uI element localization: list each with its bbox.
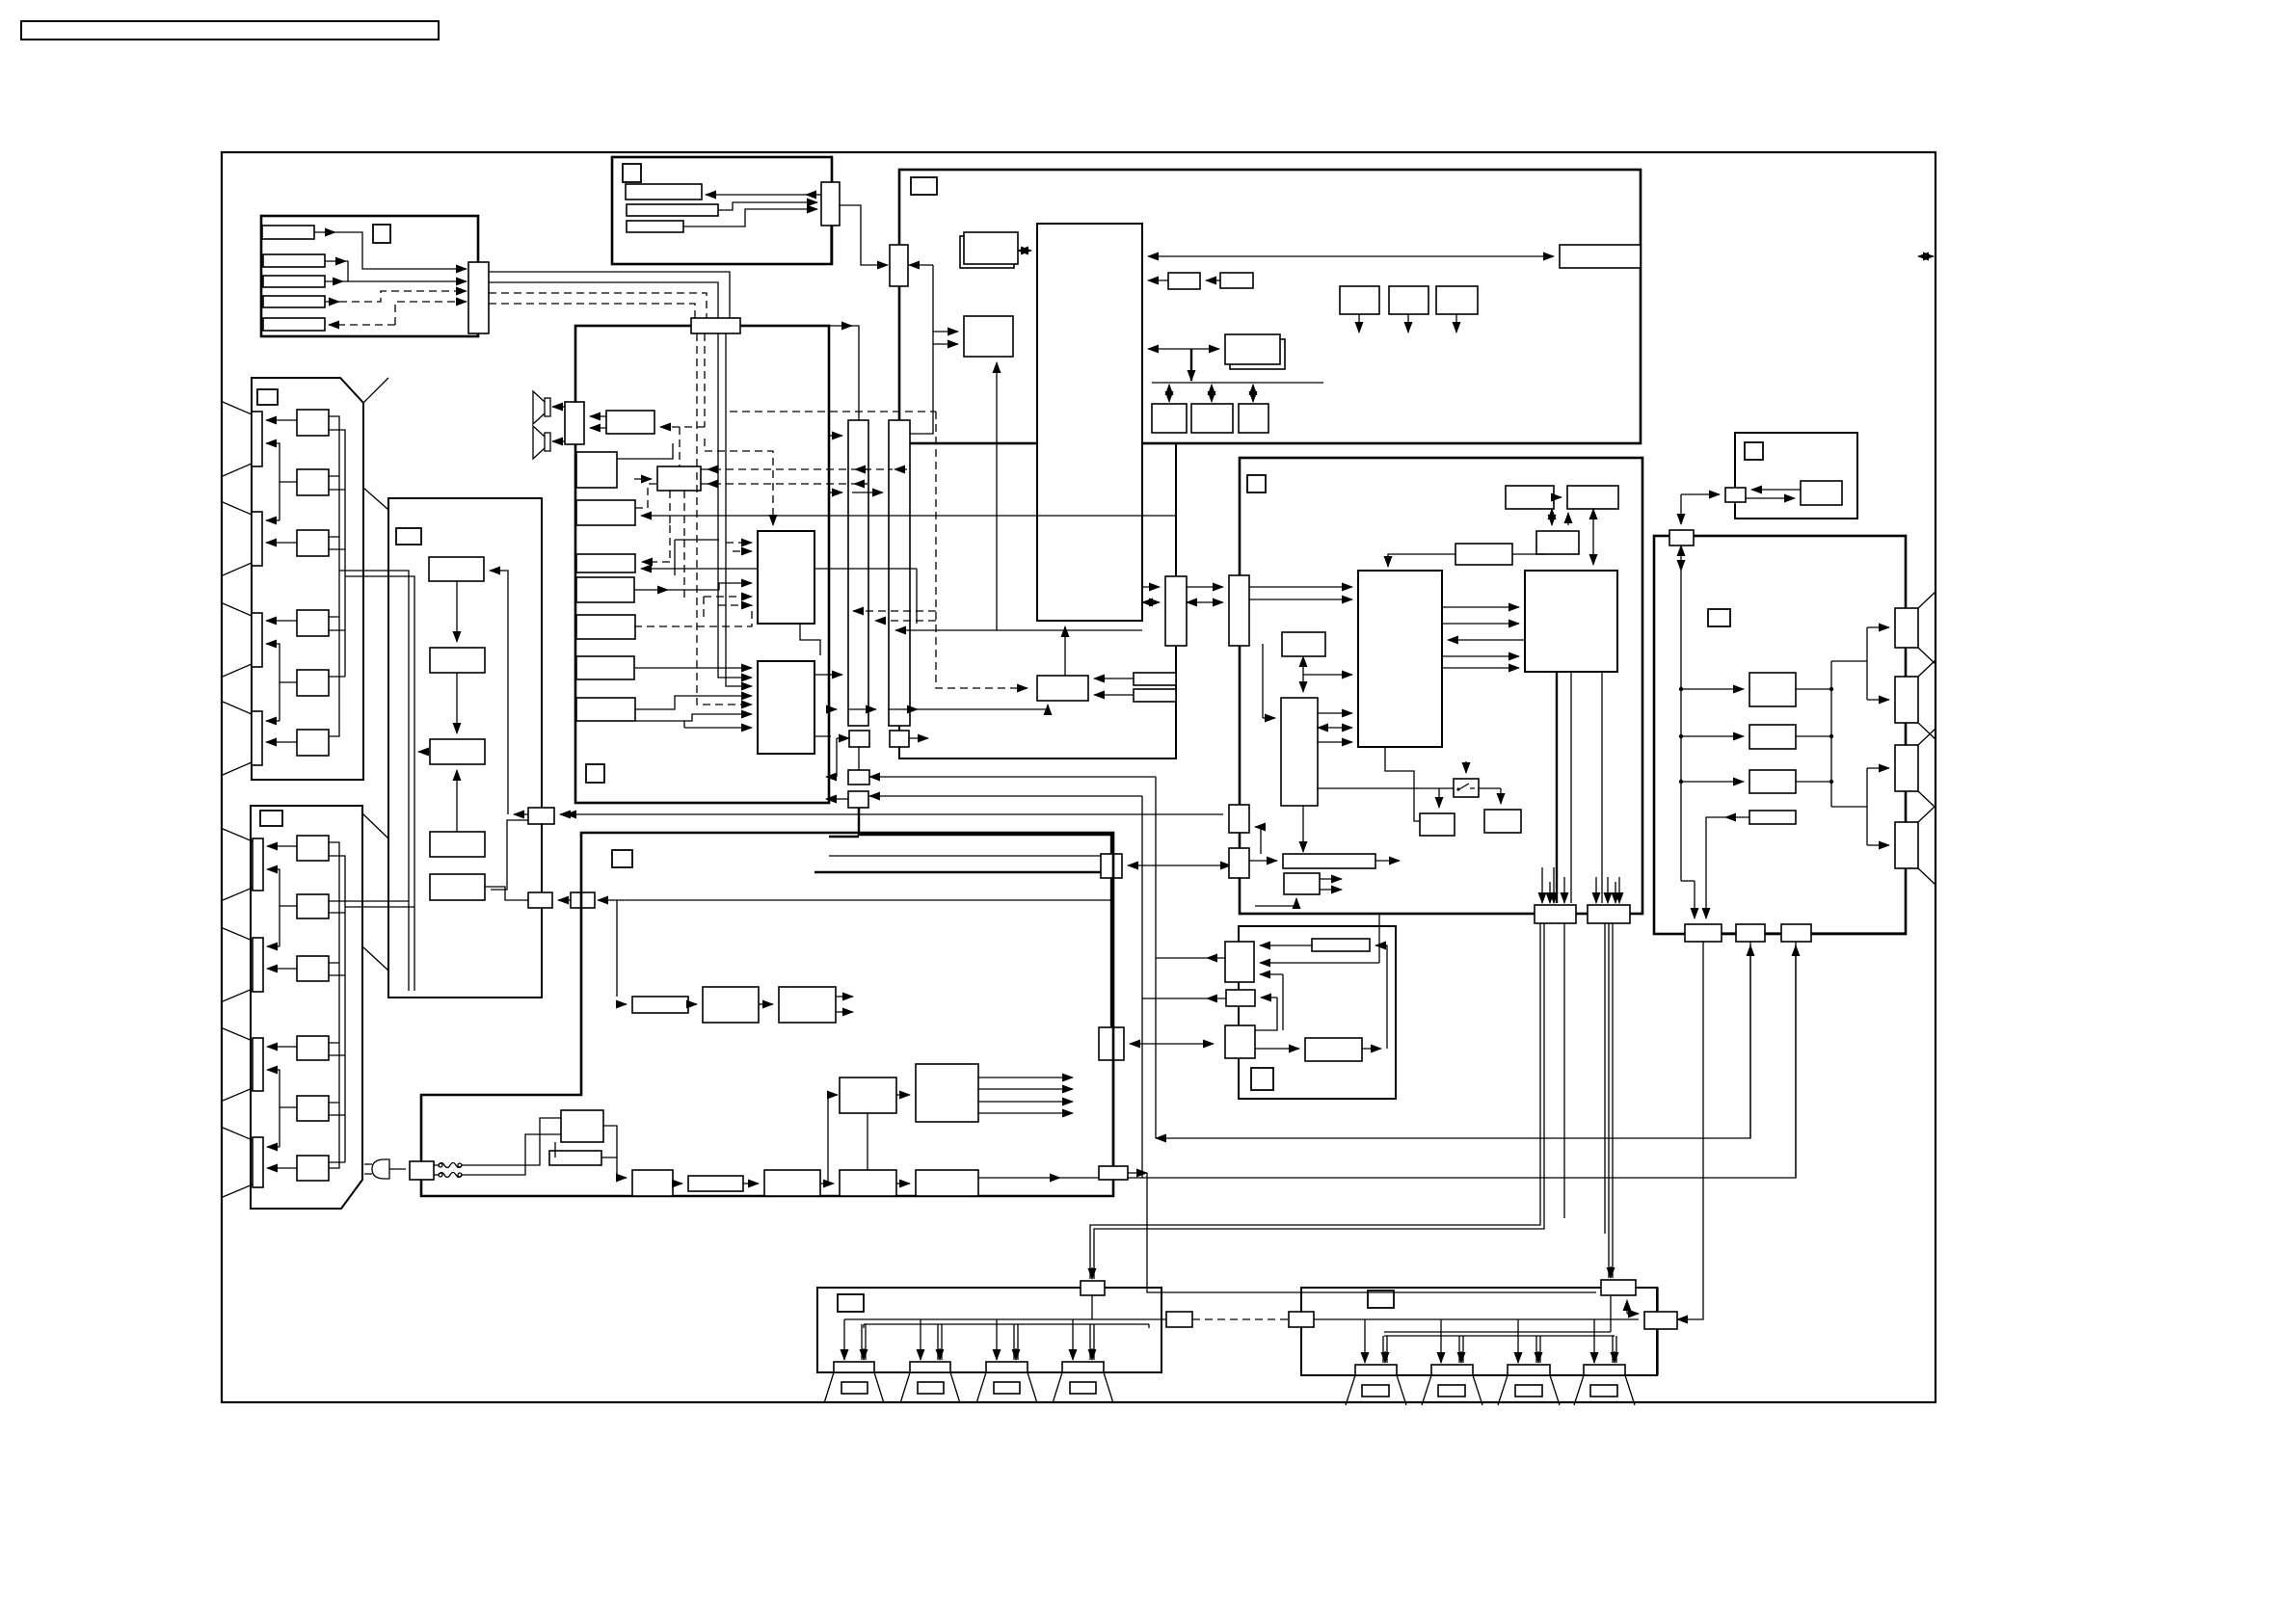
- panel1 jack 2: [252, 512, 262, 566]
- wire conn3 line to right edge: [1811, 932, 1906, 934]
- connector below bar2: [890, 731, 909, 747]
- wire solid into bars y512: [829, 492, 842, 493]
- shadow box tuner pack: [960, 236, 1014, 268]
- wire Q1 to video connector: [1128, 865, 1231, 866]
- long wire: video conn1 down to spk left: [1090, 923, 1544, 1234]
- vertical bus audio out: [1830, 661, 1832, 807]
- block: audio output board (far right): [1654, 536, 1906, 934]
- long wire: audio-out conn1 down: [1677, 942, 1703, 1319]
- connector spk left right edge: [1166, 1312, 1192, 1327]
- wire into spk-left top connector: [1090, 1234, 1094, 1279]
- speaker unit R2: [1422, 1365, 1482, 1405]
- box side av: [1305, 1038, 1362, 1061]
- wire panel1 bus out to tuner: [339, 571, 414, 991]
- connector tuner right: [528, 808, 554, 824]
- wire audio to inline connector (thick): [859, 808, 1111, 854]
- wire r2 to regulator: [1094, 694, 1134, 696]
- connector main left: [890, 245, 908, 286]
- block: IR receiver / key board: [612, 157, 832, 264]
- IR bar 3: [627, 221, 683, 232]
- wire audio thick line y905: [814, 871, 1101, 873]
- wire main left edge feed: [898, 170, 900, 245]
- label square remote: [373, 225, 390, 243]
- wire power bottom drop: [1112, 1060, 1114, 1166]
- AC inlet box: [410, 1161, 434, 1180]
- wire bus solid 1: [489, 272, 730, 318]
- wire box1 to box2: [759, 1003, 773, 1005]
- label square tuner: [396, 528, 421, 545]
- standby box 1: [703, 987, 759, 1023]
- wire conn2 loop: [1261, 997, 1277, 998]
- connector below bar1: [849, 731, 869, 747]
- wire crt connector feed: [1681, 493, 1720, 495]
- bus wires: remote connector to audio connector: [489, 272, 730, 318]
- audio mux box: [657, 466, 701, 491]
- wire power conn out: [1128, 1172, 1147, 1174]
- connector tuner C: [571, 892, 595, 908]
- speaker unit L3: [976, 1362, 1037, 1403]
- tuner box 3: [430, 739, 485, 764]
- wire tuner feedback: [490, 571, 508, 814]
- wire conn to aux top: [1635, 1288, 1658, 1311]
- wire mid1 to mid2: [896, 1094, 910, 1096]
- wire into small box bottom: [1295, 898, 1297, 906]
- smps box 3: [840, 1170, 896, 1196]
- smps box 2: [764, 1170, 820, 1196]
- label square main: [911, 177, 937, 195]
- wires spk right drops: [1364, 1319, 1366, 1363]
- panel1 box A: [297, 410, 329, 436]
- wire dashed between speaker boxes: [1192, 1318, 1289, 1320]
- wire switch line left: [1318, 787, 1454, 789]
- wires down from audio connector: [696, 333, 698, 466]
- wire subboard bar to video bar lower: [1187, 601, 1223, 603]
- wires into bigA left: [726, 542, 752, 544]
- connector IR out: [821, 182, 840, 226]
- wire long bar feed: [1302, 806, 1304, 852]
- box at right edge of main: [1560, 245, 1641, 268]
- long bar: [1283, 854, 1375, 868]
- panel1 box F: [297, 730, 329, 756]
- wire degauss out: [601, 1157, 617, 1178]
- speaker terminal chevron 4: [1895, 806, 1936, 885]
- wire crt connector to box: [1751, 489, 1801, 491]
- label square power: [612, 850, 632, 867]
- wire P2 feed from right: [869, 795, 1142, 797]
- wire dashed into box3: [642, 561, 670, 563]
- block: side AV board (below video): [1239, 926, 1396, 1099]
- relay box: [561, 1110, 603, 1142]
- video big box 2: [1525, 571, 1617, 672]
- box aux right of spk2: [1644, 1312, 1677, 1329]
- connector crt left: [1725, 488, 1746, 502]
- audio big box A: [758, 531, 814, 624]
- panel1 flag lines 2: [223, 502, 252, 575]
- wire video bottom link down right: [1563, 923, 1565, 1218]
- wire upper mid arrows: [1551, 509, 1553, 525]
- wire video bar to big1 b: [1249, 599, 1352, 600]
- connector audio top: [691, 318, 740, 333]
- audio big box B: [758, 661, 814, 754]
- wire smps up feed: [867, 1113, 868, 1170]
- box small below long bar: [1284, 873, 1320, 894]
- wire audio thin line y888: [829, 855, 1101, 857]
- wire bar to conn1: [1260, 945, 1312, 946]
- box video left of big2: [1455, 544, 1512, 565]
- small wide box r2: [1134, 689, 1176, 702]
- block: speaker box left: [817, 1288, 1161, 1372]
- connector side av 1: [1225, 942, 1254, 982]
- standby box 2: [779, 987, 836, 1023]
- panel1 flag lines 1: [223, 402, 252, 476]
- panel1 wires boxes to jacks: [266, 419, 297, 421]
- panel2 wires boxes to jacks: [267, 845, 297, 847]
- wire spk left bus thin: [844, 1318, 1166, 1320]
- wire tall box to big1 lines: [1318, 712, 1352, 714]
- switch box: [1454, 779, 1479, 797]
- speaker unit L4: [1053, 1362, 1113, 1403]
- panel2 box C: [297, 956, 329, 981]
- wire IR connector down: [830, 226, 832, 264]
- connector video left lower: [1229, 848, 1249, 878]
- panel1 right bus double lines: [329, 416, 345, 736]
- degauss flat box: [549, 1151, 601, 1165]
- amp box 1: [1749, 673, 1796, 706]
- wire amp outputs to vertical bus: [1796, 688, 1831, 690]
- switch lever: [1457, 784, 1475, 790]
- wire bar2 top up: [898, 386, 900, 420]
- wires spk left drops: [843, 1319, 845, 1360]
- wire dashed mux left: [634, 478, 652, 480]
- label square panel2: [260, 811, 282, 826]
- dashed feed from top right into bigA: [705, 439, 773, 525]
- smps box 4: [916, 1170, 978, 1196]
- box video upper mid: [1536, 531, 1579, 554]
- wire relay to degauss: [554, 1142, 556, 1157]
- wire box1 to mux solid: [617, 443, 673, 459]
- wire C to B arrow: [558, 899, 571, 901]
- block: remote control unit: [261, 216, 478, 336]
- block: audio processing: [575, 326, 829, 803]
- block: video / deflection board: [1240, 458, 1642, 914]
- wire dashed into bars y634: [853, 610, 936, 612]
- block: digital sub board: [899, 443, 1176, 758]
- connector video bottom 1: [1535, 905, 1576, 923]
- tuner box 2: [430, 648, 485, 673]
- top bar side av: [1312, 939, 1370, 951]
- panel1 box B: [297, 469, 329, 495]
- wire r1 to regulator: [1094, 678, 1134, 679]
- wire Q1 down to Q2: [1110, 878, 1112, 1027]
- left polygon block 2 (terminal panel bottom): [251, 806, 362, 1209]
- connector spk left top: [1081, 1281, 1105, 1295]
- wire aux up arrow: [1626, 1300, 1628, 1314]
- wire main vertical feed: [1680, 571, 1682, 881]
- panel1 box C: [297, 530, 329, 556]
- amp box 4: [1749, 811, 1796, 824]
- audio left box 3: [576, 554, 635, 572]
- wire solid into box3: [641, 568, 917, 570]
- small box pair right of cpu: [1168, 273, 1200, 289]
- block: CRT socket board (small top-right): [1735, 433, 1857, 519]
- label square spk left: [838, 1294, 864, 1312]
- panel2 flag lines 4: [223, 1128, 253, 1197]
- inline connector box Q2: [1099, 1027, 1124, 1060]
- panel1 box E: [297, 670, 329, 696]
- wire tuner b3 left arrow: [418, 751, 430, 753]
- wire tuner b2-b3: [456, 673, 458, 733]
- block: speaker box right: [1301, 1288, 1657, 1375]
- block: power supply: [421, 833, 1113, 1196]
- speaker unit L1: [824, 1362, 884, 1403]
- wire cpu to memory: [1148, 348, 1219, 350]
- wire bar to box1: [688, 1003, 697, 1005]
- wire smps long output right: [978, 1177, 1060, 1179]
- speaker unit R4: [1574, 1365, 1635, 1405]
- fuse squiggles: [434, 1163, 467, 1168]
- wire bus solid 2: [489, 282, 718, 318]
- panel2 jack 1: [253, 838, 263, 891]
- wire Q2 to sub block: [1130, 1043, 1214, 1045]
- small wide box r1: [1134, 673, 1176, 685]
- connector side av 3: [1225, 1025, 1255, 1058]
- wire into spk-right top connector: [1609, 1234, 1613, 1278]
- wire bus dashed 2: [489, 304, 695, 318]
- wire dashed vertical x971: [936, 412, 1028, 688]
- long wire: audio-out conn3 down: [1795, 942, 1797, 1178]
- label square side av: [1251, 1068, 1273, 1090]
- panel1 flag lines 3: [223, 603, 252, 677]
- label square crt: [1745, 442, 1763, 460]
- label square video: [1247, 475, 1266, 492]
- panel2 flag lines 3: [223, 1028, 253, 1101]
- diagonal joins panel1 to tuner: [363, 378, 388, 510]
- connector remote out: [468, 262, 489, 333]
- audio left box 5: [576, 615, 635, 639]
- wire spk right bus double: [1384, 1332, 1615, 1336]
- bus bar 1: [848, 420, 868, 726]
- connector spk right top: [1601, 1280, 1636, 1295]
- power box mid 2: [916, 1064, 978, 1122]
- block: main signal board (top right): [899, 170, 1641, 443]
- panel2 box D: [297, 1036, 329, 1060]
- box below switch right: [1484, 810, 1521, 833]
- panel1 jack 4: [252, 711, 262, 765]
- wire dashed down from mux: [669, 491, 671, 525]
- connector bar video left: [1229, 575, 1249, 646]
- connector audio out top: [1669, 530, 1694, 545]
- wire dashed into bars y497: [701, 483, 868, 485]
- speaker terminal chevron 3: [1895, 729, 1936, 808]
- boxes video top right: [1506, 486, 1554, 509]
- remote key bar 1: [262, 226, 314, 239]
- wire power standby line: [598, 899, 1111, 901]
- wire into main smps: [603, 1126, 617, 1157]
- connector bar sub board right: [1165, 576, 1187, 646]
- wire dashed into bars y487: [701, 468, 893, 470]
- speaker unit L2: [900, 1362, 960, 1403]
- wire into conn1 mid: [1260, 962, 1379, 964]
- shadow box memory: [1230, 339, 1285, 369]
- wire P1 arrow left: [826, 776, 837, 778]
- wires smps chain: [673, 1183, 682, 1184]
- wire spk connector down join: [1091, 1295, 1093, 1319]
- wire video big1 down outputs: [1385, 747, 1420, 821]
- tuner box 4: [430, 832, 485, 857]
- box crt inner: [1801, 481, 1842, 505]
- power box mid 1: [840, 1078, 896, 1113]
- wire sub square up from below: [996, 362, 998, 630]
- speaker icon 1: [533, 391, 550, 424]
- audio left box 6: [576, 656, 634, 679]
- wire cpu to right edge box: [1148, 255, 1554, 257]
- tuner box 5: [430, 874, 485, 900]
- diagonal joins panel2 to tuner: [362, 813, 388, 971]
- left polygon block 1 (terminal panel top): [252, 378, 363, 780]
- wire remote bar3 to connector: [325, 280, 343, 282]
- speaker driver box: [565, 402, 584, 444]
- memory boxes below bus: [1152, 404, 1187, 433]
- speaker unit R3: [1498, 1365, 1560, 1405]
- speaker unit R1: [1346, 1365, 1406, 1405]
- tall box video: [1281, 698, 1318, 806]
- speaker icon 2: [533, 426, 550, 459]
- wire pair arrows: [1206, 279, 1220, 281]
- arrows bus to memory boxes: [1168, 385, 1170, 402]
- speaker terminal chevron 1: [1895, 592, 1936, 664]
- panel1 jack 3: [252, 613, 262, 667]
- long wire: audio-out conn2 down: [1749, 942, 1751, 1138]
- wire small box down arrows: [1302, 656, 1304, 692]
- wire solid into bars y654: [895, 629, 1142, 631]
- wire riser x1199 bottom link: [1156, 945, 1750, 1138]
- box sub square: [964, 316, 1013, 357]
- panel1 box D: [297, 610, 329, 636]
- wire conn1 left out: [1207, 957, 1225, 959]
- wire bus to chevron bracket 2: [1831, 806, 1867, 808]
- connector audio out bottom 2: [1736, 924, 1765, 942]
- wire remote bar4 dashed: [325, 301, 339, 303]
- amp box 2: [1749, 725, 1796, 749]
- connector box P2: [848, 791, 868, 808]
- wire IR bar2 to connector: [718, 202, 817, 210]
- small box video mid: [1282, 632, 1325, 656]
- wire dashed into bars y644: [875, 620, 936, 622]
- remote key bar 2: [263, 254, 325, 267]
- label square panel1: [257, 389, 278, 405]
- wire between top boxes: [1554, 496, 1562, 498]
- panel2 flag lines 2: [223, 928, 253, 1001]
- wire spk left bus double: [864, 1324, 1149, 1328]
- wire connector to sub square a: [909, 264, 915, 266]
- wire bigB outputs right: [814, 674, 842, 676]
- connector audio out bottom 1: [1685, 924, 1722, 942]
- panel1 flag lines 4: [223, 702, 252, 775]
- wire subboard bar to video bar upper: [1187, 586, 1223, 588]
- wire tuner pack to cpu: [1018, 250, 1031, 252]
- wire links between bottom connectors: [1722, 932, 1781, 934]
- wire into conn1 low: [1260, 973, 1283, 975]
- CPU tall box: [1037, 224, 1142, 621]
- wire main block right to subboard bar: [1142, 586, 1160, 588]
- wire drops into bottom connectors: [1541, 867, 1543, 903]
- video big box 1: [1358, 571, 1442, 747]
- wire bar1 top up: [740, 325, 852, 327]
- connector tuner B: [528, 892, 552, 908]
- AC plug: [364, 1159, 406, 1179]
- wire remote bar5 dashed return: [329, 324, 395, 326]
- wire bus to chevron bracket 1: [1831, 660, 1867, 662]
- wire bigA down to bigB: [800, 624, 820, 655]
- wire conn2 left out: [1207, 998, 1226, 999]
- box below switch left: [1420, 813, 1455, 836]
- wire video conn2 to long bar: [1249, 860, 1277, 862]
- wire dashed horiz top y427: [730, 411, 936, 412]
- wire tuner b5 to conn B: [485, 887, 528, 900]
- wire long bar out: [1375, 860, 1400, 862]
- wire switch to boxes below: [1438, 788, 1440, 808]
- wire box2 outputs: [836, 996, 853, 998]
- inline connector box Q1: [1101, 854, 1122, 878]
- wire big2 verticals down: [1556, 672, 1558, 903]
- wire dashed into amp: [660, 426, 705, 428]
- wire conn3 to box: [1255, 1048, 1299, 1050]
- smps box 1: [632, 1170, 673, 1196]
- connector box P1: [848, 770, 869, 785]
- label square audio: [586, 764, 604, 783]
- bus bar 2: [889, 420, 910, 726]
- wire P1 feed from right: [869, 776, 1156, 778]
- panel2 box B: [297, 894, 329, 918]
- panel2 box F: [297, 1156, 329, 1181]
- wire vertical riser x1199: [1155, 777, 1157, 1138]
- wire spk right conn down: [1610, 1295, 1612, 1332]
- title box: [21, 21, 439, 40]
- panel2 jack 3: [253, 1038, 263, 1091]
- amp box 3: [1749, 770, 1796, 793]
- wire bus through bars y736: [829, 708, 837, 710]
- remote key bar 5: [263, 318, 325, 331]
- panel2 box A: [297, 836, 329, 861]
- remote key bar 3: [263, 276, 325, 287]
- wire box to riser: [1362, 1048, 1381, 1050]
- wire IR bar3 to connector: [683, 209, 817, 226]
- wire top connector down arrows: [1680, 545, 1682, 571]
- wire bracket into conn mid: [1255, 827, 1261, 854]
- wire P2 arrow left: [826, 798, 837, 800]
- connector power right: [1099, 1166, 1128, 1180]
- wire bus dashed 1: [489, 293, 707, 318]
- IR bar 1: [626, 184, 702, 200]
- wire mid2 outputs 4: [978, 1077, 1073, 1078]
- wire spk right bus thin: [1314, 1318, 1639, 1320]
- wire into switch: [1465, 761, 1467, 773]
- smps flat bar: [688, 1176, 743, 1191]
- wire speakers from driver: [552, 406, 565, 408]
- wire feedback riser to bar: [1375, 945, 1387, 1049]
- wire tuner conn A arrows: [514, 813, 528, 815]
- wire top box2 up-down: [1592, 509, 1594, 565]
- label square spk right: [1368, 1290, 1394, 1308]
- connector audio out bottom 3: [1781, 924, 1811, 942]
- panel2 flag lines 1: [223, 829, 253, 900]
- wire regulator up to cpu: [1064, 626, 1066, 676]
- wire into tuner conn from right: [560, 813, 575, 815]
- wire remote bar1 to connector: [314, 231, 335, 233]
- IR bar 2: [627, 204, 718, 216]
- audio left box 7: [576, 698, 635, 721]
- remote key bar 4: [263, 296, 325, 307]
